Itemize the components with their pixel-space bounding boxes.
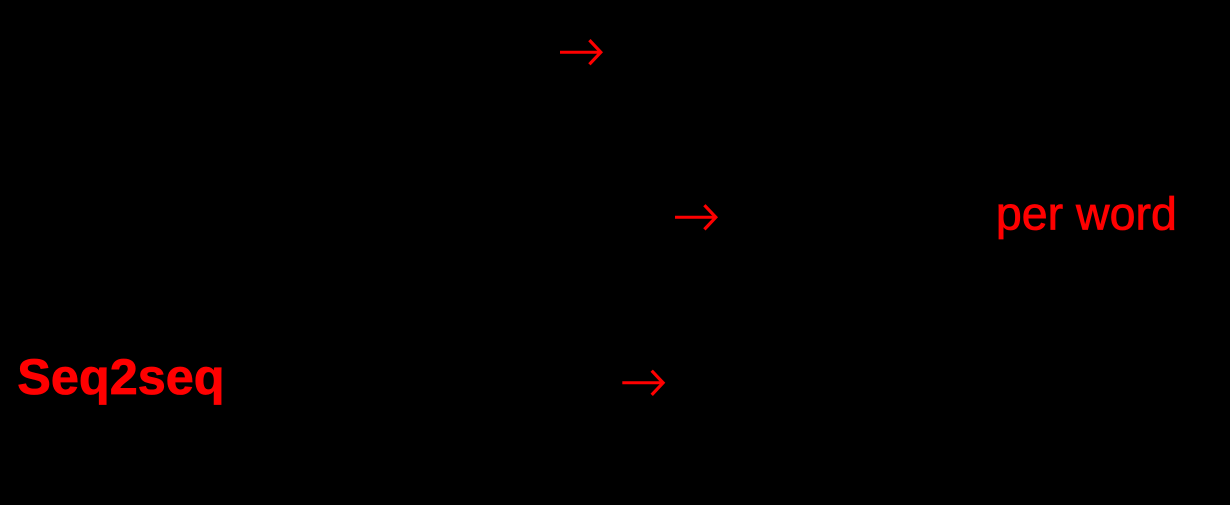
arrow top bbox=[560, 40, 601, 64]
arrow bottom bbox=[622, 371, 663, 395]
svg-text:per word: per word bbox=[996, 188, 1177, 240]
svg-text:Seq2seq: Seq2seq bbox=[17, 348, 224, 405]
arrow middle bbox=[675, 205, 716, 229]
